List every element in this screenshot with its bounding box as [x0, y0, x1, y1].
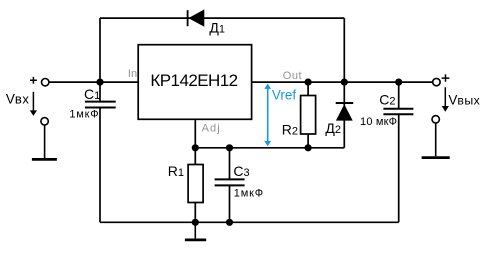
ground (input side): [32, 125, 57, 159]
wire output from Out pin to + terminal: [252, 81, 433, 83]
svg-text:Out: Out: [283, 70, 302, 82]
terminal input -: [41, 118, 48, 125]
node Д1/Д2 output junction: [341, 79, 348, 86]
node C2 top junction: [395, 79, 402, 86]
wire C2 upper lead: [398, 82, 400, 109]
node R2 bottom junction: [305, 144, 312, 151]
diode Д2 (cathode up): [325, 103, 353, 136]
svg-text:R2: R2: [282, 121, 298, 137]
Vref arrow (cyan, double headed): [264, 84, 271, 147]
wire input from + terminal to In pin: [49, 81, 138, 83]
wire Д2 branch vertical: [343, 82, 345, 148]
wire R2 top stub: [307, 82, 309, 95]
resistor R1: [168, 163, 203, 203]
Vвых arrow: [442, 87, 449, 112]
svg-text:КР142ЕН12: КР142ЕН12: [150, 71, 237, 90]
wire C1 upper lead: [99, 82, 101, 102]
svg-text:Vref: Vref: [272, 88, 297, 103]
wire R1 bottom stub: [194, 203, 196, 223]
resistor R2: [282, 96, 316, 138]
svg-text:C1: C1: [84, 86, 100, 102]
wire top rail (protection diode net): [100, 17, 344, 19]
svg-text:Adj: Adj: [202, 123, 221, 135]
svg-text:Vвых: Vвых: [448, 93, 480, 108]
svg-text:C3: C3: [233, 163, 249, 179]
wire C3 bottom stub: [229, 185, 231, 222]
wire right vertical of top rail: [343, 18, 345, 82]
node C3 bottom junction: [226, 219, 233, 226]
wire C3 top stub: [229, 148, 231, 180]
wire Adj rail: [195, 147, 344, 149]
node Adj/R1 junction: [192, 144, 199, 151]
svg-text:10 мкФ: 10 мкФ: [360, 116, 397, 128]
op-amp U1 regulator КР142ЕН12 body: [138, 45, 251, 120]
terminal output +: [433, 74, 450, 85]
node C3 top junction: [226, 144, 233, 151]
wire left vertical from top rail to input node: [99, 18, 101, 82]
terminal input +: [30, 77, 49, 86]
wire R1 top stub: [194, 148, 196, 165]
terminal output -: [432, 116, 439, 123]
ground (bottom, R1 leg): [185, 222, 206, 240]
Vвх arrow: [30, 92, 37, 116]
diode Д1 (protection, cathode left): [188, 9, 225, 35]
wire bottom ground rail: [100, 221, 399, 223]
capacitor C1: [69, 86, 115, 121]
wire C2 lower lead to ground rail: [398, 114, 400, 222]
svg-text:C2: C2: [379, 91, 395, 107]
svg-text:Vвх: Vвх: [6, 92, 30, 107]
svg-text:1мкФ: 1мкФ: [69, 109, 99, 121]
ground (output side): [422, 123, 450, 157]
capacitor C2: [360, 91, 413, 128]
svg-text:1мкФ: 1мкФ: [234, 188, 264, 200]
wire C1 lower lead to ground rail: [99, 108, 101, 223]
svg-text:Д2: Д2: [325, 120, 341, 136]
wire Adj pin stub: [194, 119, 196, 148]
svg-text:In: In: [128, 68, 137, 80]
node R2 top junction: [305, 79, 312, 86]
node input junction (C1 / top rail / In): [96, 79, 103, 86]
node R1 bottom / ground junction: [192, 219, 199, 226]
wire R2 bottom stub: [307, 134, 309, 148]
svg-text:R1: R1: [168, 163, 184, 179]
svg-text:Д1: Д1: [209, 20, 225, 36]
capacitor C3: [215, 163, 264, 200]
